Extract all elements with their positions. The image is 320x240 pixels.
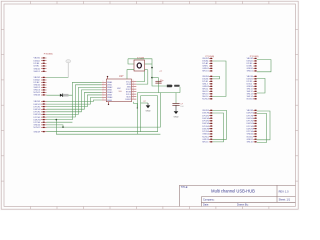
ground (under C2)	[174, 105, 179, 118]
connector P7 (right col2 top, 6 pins)	[247, 58, 257, 73]
wire (bundle net 7)	[47, 97, 102, 104]
wire (row 122 stub)	[47, 121, 73, 123]
wire (bundle net 4)	[47, 90, 102, 112]
connector P1 (left top, 6 pins)	[34, 57, 47, 73]
capacitor C1 (on vertical)	[155, 71, 164, 83]
pin row (left, lone bottom pin)	[34, 131, 47, 133]
IC U1 body	[106, 79, 131, 102]
diode D1	[60, 94, 69, 97]
pin rows (right col2 bottom pair)	[247, 139, 257, 144]
wire (to GND flag)	[141, 102, 148, 104]
svg-text:U1?: U1?	[119, 75, 124, 78]
svg-text:Company:: Company:	[203, 198, 215, 201]
svg-text:SHLD1: SHLD1	[34, 71, 41, 73]
ground (inside loop)	[146, 103, 151, 113]
wire (long net 2)	[47, 96, 158, 132]
svg-text:SHL16: SHL16	[247, 142, 254, 144]
svg-text:SHLD1: SHLD1	[247, 71, 254, 73]
wire (crystal left pins)	[127, 59, 134, 79]
wire (bundle net 8)	[47, 100, 102, 101]
svg-text:NCNC2: NCNC2	[247, 136, 255, 138]
wire (U1 bottom-right stub)	[134, 102, 138, 109]
wire (col2 block1 loop)	[257, 60, 271, 72]
net flag +5V (black)	[167, 85, 180, 88]
svg-text:GND: GND	[146, 111, 151, 113]
IC U1 top pin	[107, 76, 108, 79]
svg-text:NCNC3: NCNC3	[247, 99, 255, 101]
wire (bundle net 3)	[47, 87, 102, 114]
crystal X1	[134, 60, 145, 71]
wire (bundle net 2)	[47, 85, 102, 117]
wire (loop inner top)	[141, 95, 158, 97]
wire (col1 inner link)	[213, 76, 220, 79]
connector P3 (left lower, 11 pins)	[34, 101, 47, 129]
svg-text:NCNC2: NCNC2	[202, 136, 210, 138]
IC U1 bottom pin	[108, 102, 109, 105]
svg-text:NCNC3: NCNC3	[202, 99, 210, 101]
wire (node to C1 branch)	[152, 78, 159, 93]
svg-text:DM-A1: DM-A1	[34, 59, 41, 62]
wire (P2 pin1 to power flag)	[47, 77, 69, 79]
wire (loop inner left)	[140, 96, 142, 132]
svg-text:GND09: GND09	[34, 131, 42, 133]
title block frame	[179, 185, 295, 206]
wire (bundle net 5)	[47, 92, 102, 109]
svg-text:DMUP: DMUP	[125, 99, 131, 101]
wire (branch vertical x56)	[56, 120, 160, 135]
svg-text:SHL15: SHL15	[202, 142, 209, 144]
connector P4 (right col1 top, 6 pins)	[202, 58, 212, 73]
svg-text:Sheet: 1/1: Sheet: 1/1	[279, 198, 291, 201]
wire (col2 lower outer loop)	[257, 111, 270, 140]
wire (col1 lower outer loop)	[213, 110, 227, 139]
junction dots (bottom-left)	[56, 119, 64, 128]
wire (P2 pin8 through diode D1)	[47, 94, 73, 96]
node junction dots	[151, 67, 153, 79]
svg-text:P?(USB): P?(USB)	[44, 53, 53, 55]
wire (crystal right pins to node)	[128, 59, 167, 86]
wire (col2 lower inner loop)	[257, 114, 267, 143]
wire (col1 upper loop)	[213, 61, 227, 96]
svg-text:GND03: GND03	[34, 95, 42, 97]
svg-text:GND: GND	[174, 116, 179, 118]
svg-text:NCNC2: NCNC2	[34, 127, 42, 129]
wire (+5V flag down)	[179, 87, 181, 93]
svg-text:Date:: Date:	[203, 203, 209, 206]
wire (long net 1)	[47, 93, 161, 128]
wire (bundle net 1)	[47, 82, 102, 119]
pin rows (right col1 bottom pair)	[202, 139, 212, 144]
wire (col1 lower inner loop)	[213, 113, 224, 142]
wire (col2 block2 loop)	[257, 78, 265, 93]
IC U1 inner text	[117, 88, 122, 93]
wire (bundle net 6)	[47, 95, 102, 107]
connector P6 (right col1 lower, 11 pins)	[202, 110, 212, 139]
svg-text:Multi channel USB-HUB: Multi channel USB-HUB	[211, 189, 255, 194]
IC U1 left pins	[102, 81, 112, 102]
svg-text:Drawn By:: Drawn By:	[237, 203, 249, 206]
svg-text:SHLD1: SHLD1	[202, 71, 209, 73]
svg-text:REV: 1.0: REV: 1.0	[279, 190, 290, 193]
wire (loop outer left/top)	[138, 93, 180, 135]
connector P5 (right col1, 10 pins)	[202, 76, 212, 101]
power flag VBUS (light gray)	[66, 60, 71, 78]
capacitor C2	[172, 93, 183, 109]
wire (jog from row 124.8)	[47, 125, 64, 127]
connector P2 (left mid, 8 pins)	[34, 77, 47, 97]
svg-text:104: 104	[180, 106, 183, 108]
svg-text:SEL: SEL	[119, 91, 122, 93]
svg-text:TITLE:: TITLE:	[181, 186, 189, 189]
svg-text:DP-A1: DP-A1	[34, 62, 41, 65]
IC U1 right pins	[125, 80, 136, 101]
connector P8 (right col2, 10 pins)	[247, 76, 257, 101]
connector P9 (right col2 lower, 11 pins)	[247, 110, 257, 139]
svg-text:DPA4: DPA4	[107, 99, 112, 102]
